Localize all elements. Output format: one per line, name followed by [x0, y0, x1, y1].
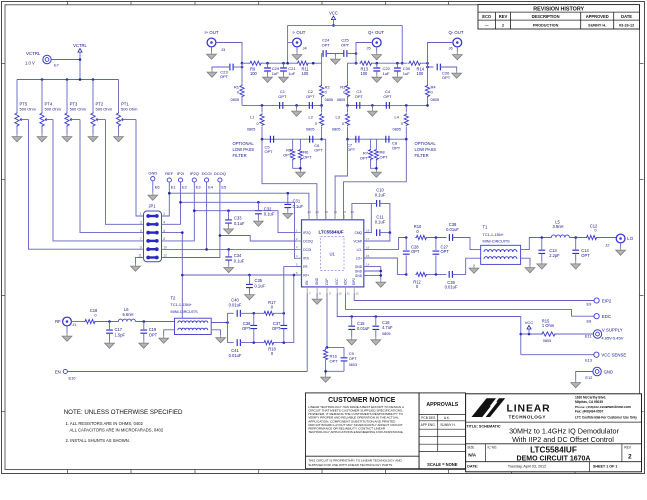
- svg-text:CAP: CAP: [325, 278, 329, 285]
- svg-text:OPT: OPT: [265, 149, 274, 154]
- capacitor C21 1uF: [280, 63, 296, 76]
- svg-text:03-26-12: 03-26-12: [619, 23, 634, 27]
- capacitor C11 0.1uF: [375, 214, 386, 236]
- wire I-LPF to chip pin23: [262, 139, 317, 220]
- svg-text:LTC5584IUF: LTC5584IUF: [530, 446, 577, 455]
- capacitor C27 OPT: [433, 238, 450, 275]
- inductor L6 5.6nH: [118, 307, 135, 322]
- capacitor C34 0.1uF: [225, 249, 244, 265]
- wire REF net E1 to chip pin24: [162, 182, 309, 220]
- svg-text:4.95V-5.45V: 4.95V-5.45V: [601, 335, 623, 340]
- terminal E2 IP2I: [177, 171, 187, 189]
- size and part number row: [467, 445, 632, 462]
- svg-text:OPT: OPT: [272, 326, 281, 331]
- svg-text:1uF: 1uF: [288, 71, 295, 76]
- wire VCC pin10 rail: [337, 293, 521, 318]
- optional low pass filter note I: [233, 141, 255, 158]
- svg-text:Q- OUT: Q- OUT: [448, 30, 463, 35]
- svg-text:19: 19: [351, 210, 355, 214]
- wire C11 to VCAP pin17: [364, 231, 391, 241]
- svg-text:3.9nH: 3.9nH: [553, 224, 564, 229]
- wire T2 secondary low to ground: [211, 330, 220, 335]
- svg-text:REF: REF: [165, 171, 174, 176]
- svg-text:2: 2: [502, 23, 504, 27]
- connector J4 I- OUT: [293, 30, 308, 51]
- title block frame: [466, 394, 642, 472]
- wire R5 R6 common: [293, 161, 302, 170]
- ground mid I-LPF: [292, 105, 302, 116]
- potentiometer PT4 500 Ohm: [40, 80, 62, 135]
- ground below C21: [279, 75, 289, 83]
- capacitor C15 0.01uF: [348, 317, 370, 338]
- capacitor C3 OPT: [355, 89, 364, 109]
- svg-text:SCALE = NONE: SCALE = NONE: [427, 462, 458, 467]
- svg-text:N/A: N/A: [468, 452, 477, 457]
- capacitor C41 0.01uF: [229, 339, 242, 358]
- svg-text:500 Ohm: 500 Ohm: [20, 107, 37, 112]
- wire R17 to RF- riser: [275, 312, 286, 315]
- connector JP1: [138, 204, 167, 262]
- ground at C23: [207, 70, 217, 78]
- svg-text:1: 1: [140, 212, 142, 216]
- svg-text:I+ OUT: I+ OUT: [205, 30, 219, 35]
- wire chip pin19 to C10 row: [352, 203, 372, 219]
- ground at chip right GND pins: [376, 280, 386, 288]
- capacitor C25 OPT: [341, 38, 357, 57]
- svg-text:I- OUT: I- OUT: [293, 30, 306, 35]
- svg-text:GND: GND: [355, 269, 363, 273]
- svg-text:LOW PASS: LOW PASS: [415, 147, 437, 152]
- svg-text:V SUPPLY: V SUPPLY: [602, 327, 623, 332]
- svg-text:0805: 0805: [247, 128, 255, 132]
- svg-text:0.1uF: 0.1uF: [234, 258, 245, 263]
- svg-text:VCC SENSE: VCC SENSE: [601, 353, 626, 358]
- svg-text:APPROVALS: APPROVALS: [426, 402, 458, 408]
- capacitor C6 OPT: [310, 136, 323, 153]
- resistor R17 0: [263, 300, 276, 315]
- wire R11 to C24 riser: [309, 62, 322, 65]
- ground below PT3: [62, 134, 72, 142]
- resistor R2 0 0805: [320, 63, 334, 105]
- power flag VCTRL: [73, 43, 87, 60]
- svg-text:0.01uF: 0.01uF: [446, 227, 459, 232]
- svg-text:FILTER: FILTER: [415, 153, 429, 158]
- svg-text:Q+ OUT: Q+ OUT: [368, 30, 384, 35]
- svg-text:C11: C11: [376, 214, 384, 219]
- svg-text:3: 3: [140, 221, 142, 225]
- capacitor C40 0.01uF: [229, 298, 242, 317]
- customer notice box: [306, 393, 420, 469]
- wire R13 to R14: [372, 62, 407, 65]
- svg-text:C17: C17: [115, 327, 123, 332]
- svg-text:J2: J2: [605, 242, 609, 247]
- svg-text:T1: T1: [483, 225, 489, 230]
- svg-text:OPTIONAL: OPTIONAL: [415, 141, 437, 146]
- svg-text:VCC: VCC: [335, 278, 339, 285]
- wire J1 to C18: [71, 321, 84, 323]
- connector J2 LO: [605, 234, 633, 247]
- wire RF+ row to T2 area: [181, 274, 294, 319]
- svg-text:OPT: OPT: [330, 358, 339, 363]
- approvals box: [419, 393, 466, 469]
- capacitor C37 OPT: [272, 313, 287, 342]
- ground below PT2: [88, 134, 98, 142]
- svg-text:0: 0: [257, 122, 259, 126]
- svg-text:L3: L3: [336, 115, 341, 120]
- ground below PT5: [12, 134, 22, 142]
- wire I-LPF top rail: [242, 104, 323, 107]
- wire JP1 pin11 to ground: [136, 258, 144, 264]
- svg-text:LINEAR: LINEAR: [507, 404, 551, 415]
- potentiometer PT2 500 Ohm: [91, 80, 113, 135]
- svg-text:ALL CAPACITORS ARE IN MICROFAR: ALL CAPACITORS ARE IN MICROFARADS, 0402: [70, 427, 164, 432]
- svg-text:0805: 0805: [431, 98, 439, 102]
- svg-text:APP ENG.: APP ENG.: [421, 423, 436, 427]
- svg-text:Phone: (408)432-1900: Phone: (408)432-1900: [575, 405, 607, 409]
- svg-text:L1: L1: [250, 115, 255, 120]
- resistor R13 100: [359, 61, 372, 76]
- resistor R4 0 0805: [425, 63, 439, 105]
- wire R18 to RF+ riser: [275, 341, 294, 344]
- ground below J1: [62, 326, 72, 342]
- resistor R8 OPT: [374, 139, 388, 160]
- ground below C29: [263, 75, 273, 83]
- ground at C26: [452, 71, 462, 79]
- terminal E3 IP2Q: [190, 171, 201, 189]
- svg-text:FILTER: FILTER: [233, 153, 247, 158]
- svg-text:0.01uF: 0.01uF: [229, 303, 242, 308]
- svg-text:OPTIONAL: OPTIONAL: [233, 141, 255, 146]
- capacitor C26 OPT: [426, 63, 457, 80]
- wire L5 to C12: [569, 236, 585, 239]
- resistor R14 100: [408, 61, 425, 76]
- wire T1 secondary to LO node: [521, 236, 552, 249]
- wire J3 to node A: [216, 43, 243, 69]
- address block: [575, 396, 637, 420]
- wire pot wiper to JP1 row 1: [136, 120, 144, 217]
- svg-text:E8: E8: [587, 318, 592, 323]
- svg-text:SUPPLIED FOR USE WITH LINEAR T: SUPPLIED FOR USE WITH LINEAR TECHNOLOGY …: [308, 463, 393, 467]
- svg-text:IP2I: IP2I: [303, 257, 309, 261]
- ground below J6: [452, 47, 462, 60]
- svg-text:LO: LO: [627, 236, 633, 241]
- ground below C22: [372, 75, 382, 83]
- wire R10 to C38: [427, 236, 446, 239]
- wire Q node rail: [348, 62, 359, 64]
- capacitor C22 1uF: [373, 63, 390, 76]
- wire T2 primary low to ground: [164, 330, 175, 336]
- ground below C16: [371, 337, 381, 345]
- ground below R7 R8: [372, 170, 382, 178]
- svg-text:SHEET 1 OF 1: SHEET 1 OF 1: [593, 465, 618, 469]
- svg-text:OPT: OPT: [581, 253, 590, 258]
- terminal E1 REF: [165, 171, 175, 189]
- wire C40 row: [228, 312, 234, 314]
- svg-text:OPT: OPT: [360, 156, 369, 161]
- svg-text:E10: E10: [69, 375, 77, 380]
- svg-text:PCB DES.: PCB DES.: [421, 416, 436, 420]
- ground below PT4: [37, 134, 47, 142]
- svg-text:OPT: OPT: [306, 94, 315, 99]
- svg-text:24: 24: [308, 210, 312, 214]
- wire T2 secondary to C40 C41 riser: [211, 313, 229, 342]
- revision history table: [478, 5, 640, 29]
- svg-text:10: 10: [338, 292, 342, 296]
- wire R15 to E11: [556, 333, 593, 335]
- capacitor C13 2.2pF: [538, 238, 560, 262]
- svg-text:Milpitas, CA 95035: Milpitas, CA 95035: [575, 400, 603, 404]
- svg-text:1uF: 1uF: [272, 71, 279, 76]
- wire R7 R8 common: [371, 161, 378, 170]
- wire DCOI net E4 to chip pin3: [162, 182, 302, 251]
- wire E7 to VCTRL node: [51, 59, 80, 61]
- svg-text:EN: EN: [305, 280, 309, 285]
- svg-text:JP1: JP1: [148, 204, 156, 209]
- ground below R16 C9: [321, 375, 331, 383]
- resistor R1 0 0805: [231, 63, 245, 105]
- svg-text:With IIP2 and DC Offset Contro: With IIP2 and DC Offset Control: [512, 435, 614, 444]
- svg-text:E6: E6: [155, 185, 160, 190]
- svg-text:1uF: 1uF: [403, 71, 410, 76]
- resistor R7 OPT: [360, 139, 373, 160]
- svg-text:0805: 0805: [325, 98, 333, 102]
- svg-text:DATE:: DATE:: [467, 465, 478, 469]
- wire VCC rail down to I- node: [287, 25, 289, 63]
- svg-text:T2: T2: [171, 296, 177, 301]
- wire I-LPF C6 to chip pin22: [322, 139, 326, 220]
- wire C18 to L6: [96, 320, 118, 323]
- svg-text:OPT: OPT: [303, 155, 312, 160]
- svg-text:5.6nH: 5.6nH: [123, 312, 134, 317]
- wire DCOQ net E5 to chip pin2: [162, 182, 302, 257]
- svg-text:IP2Q: IP2Q: [303, 231, 311, 235]
- capacitor C39 0.01uF: [445, 271, 458, 290]
- wire J5 riser: [355, 43, 373, 65]
- svg-text:OPT: OPT: [349, 356, 358, 361]
- svg-text:OPT: OPT: [242, 326, 251, 331]
- capacitor C28 OPT: [403, 238, 420, 275]
- capacitor C35 0.1uF: [246, 275, 265, 292]
- svg-text:1uF: 1uF: [383, 71, 390, 76]
- svg-text:DESCRIPTION: DESCRIPTION: [532, 14, 560, 19]
- svg-text:OPT: OPT: [314, 148, 323, 153]
- svg-text:EDC: EDC: [602, 314, 611, 319]
- ground below J4: [292, 47, 302, 60]
- wire VCC SENSE: [521, 354, 594, 356]
- svg-text:IP2I: IP2I: [177, 171, 184, 176]
- resistor R18 0: [263, 341, 276, 357]
- svg-text:MINI-CIRCUITS: MINI-CIRCUITS: [171, 310, 199, 314]
- wire JP1 pin6 to RF node: [162, 231, 184, 275]
- svg-text:RF+: RF+: [303, 273, 309, 277]
- svg-text:100: 100: [250, 71, 258, 76]
- capacitor C10 0.1uF: [372, 187, 386, 207]
- svg-text:0.1uF: 0.1uF: [255, 283, 266, 288]
- svg-text:1.5pF: 1.5pF: [115, 332, 126, 337]
- svg-text:TECHNOLOGY: TECHNOLOGY: [509, 414, 546, 419]
- ground below J5: [372, 47, 382, 60]
- wire VCC to supply node: [520, 317, 523, 355]
- capacitor C31 0.1uF: [284, 193, 303, 211]
- capacitor C5 OPT: [265, 136, 274, 154]
- svg-text:CUSTOMER NOTICE: CUSTOMER NOTICE: [328, 397, 396, 404]
- svg-text:OPT: OPT: [347, 147, 356, 152]
- wire LO+ pin15 to R12 rail: [364, 258, 408, 276]
- ground T1 right: [525, 265, 535, 273]
- svg-text:VCTRL: VCTRL: [73, 43, 87, 48]
- ground below C13: [537, 261, 547, 269]
- terminal E5 DCOQ: [214, 171, 226, 189]
- svg-text:0805: 0805: [306, 128, 314, 132]
- resistor R11 100: [297, 61, 310, 76]
- svg-text:0805: 0805: [332, 128, 340, 132]
- wire E12 to ground: [576, 372, 595, 381]
- terminal E4 DCOI: [202, 171, 214, 189]
- svg-text:VCAP: VCAP: [353, 239, 362, 243]
- svg-text:IP2Q: IP2Q: [190, 171, 199, 176]
- svg-text:OPT: OPT: [149, 332, 158, 337]
- svg-text:0.1uF: 0.1uF: [375, 220, 386, 225]
- capacitor C24 OPT: [322, 38, 331, 57]
- terminal E11 V SUPPLY: [585, 327, 624, 340]
- capacitor C30 1uF: [394, 63, 411, 76]
- svg-text:DATE: DATE: [621, 14, 632, 19]
- resistor R15 1 Ohm: [541, 318, 556, 343]
- svg-text:Fax: (408)434-0507: Fax: (408)434-0507: [575, 409, 604, 413]
- wire pot wiper to JP1 row 4: [53, 120, 144, 241]
- svg-text:OPT: OPT: [283, 153, 292, 158]
- wire Q-LPF to chip pin21: [335, 139, 347, 220]
- svg-text:LTC5584IUF: LTC5584IUF: [318, 230, 343, 235]
- svg-text:22: 22: [325, 210, 329, 214]
- capacitor C2 OPT: [306, 89, 315, 109]
- wire node B: [262, 62, 297, 65]
- svg-text:J6: J6: [449, 46, 453, 51]
- wire C10 left leg: [370, 203, 372, 232]
- svg-text:14: 14: [366, 263, 370, 267]
- svg-text:NOTE: UNLESS OTHERWISE SPECIFI: NOTE: UNLESS OTHERWISE SPECIFIED: [64, 409, 183, 416]
- svg-text:EIP2: EIP2: [602, 298, 612, 303]
- svg-text:C10: C10: [376, 187, 384, 192]
- ground T2 left: [159, 336, 169, 344]
- capacitor C1 OPT: [278, 89, 287, 109]
- wire C40 to R17: [240, 312, 263, 315]
- wire RF- riser to chip pin5: [284, 267, 302, 314]
- wire C41 to R18: [240, 341, 263, 344]
- wire C24 to C25: [326, 53, 344, 55]
- ground below C35: [245, 292, 255, 300]
- resistor R3 0 0805: [337, 63, 350, 105]
- svg-text:500 Ohm: 500 Ohm: [70, 107, 87, 112]
- svg-text:100: 100: [302, 71, 310, 76]
- potentiometer PT3 500 Ohm: [65, 80, 87, 135]
- capacitor C36 OPT: [242, 313, 257, 342]
- ground below U1 GND pin8: [312, 293, 322, 304]
- title text: [466, 425, 619, 444]
- svg-text:0: 0: [315, 122, 317, 126]
- svg-text:OPT: OPT: [220, 74, 229, 79]
- svg-text:0.1uF: 0.1uF: [264, 212, 275, 217]
- wire pot wiper to JP1 row 5: [29, 120, 144, 250]
- svg-text:SUNNY H.: SUNNY H.: [588, 23, 606, 27]
- svg-text:0.01uF: 0.01uF: [357, 326, 370, 331]
- svg-text:GND: GND: [355, 265, 363, 269]
- svg-text:11: 11: [347, 292, 350, 296]
- svg-text:IC NO.: IC NO.: [488, 445, 498, 449]
- svg-text:1.0 V: 1.0 V: [25, 61, 35, 66]
- svg-text:REV: REV: [499, 14, 508, 19]
- capacitor C14 OPT: [572, 238, 590, 262]
- date row: [467, 465, 617, 469]
- wire R12 to C39: [427, 273, 446, 276]
- svg-text:18: 18: [366, 229, 370, 233]
- ground below C14: [571, 261, 581, 269]
- svg-text:0805: 0805: [231, 98, 239, 102]
- svg-text:GND: GND: [355, 274, 363, 278]
- svg-text:0805: 0805: [337, 98, 345, 102]
- svg-text:APPROVED: APPROVED: [586, 14, 609, 19]
- transformer T1 TC1-1-13M+: [481, 225, 521, 265]
- svg-text:2.2pF: 2.2pF: [549, 253, 560, 258]
- svg-text:7: 7: [140, 237, 142, 241]
- resistor R16 OPT: [324, 349, 339, 375]
- connector J1 RF: [55, 317, 76, 327]
- svg-text:C33: C33: [234, 216, 242, 221]
- wire chip GND pins common: [364, 267, 382, 280]
- svg-text:REV.: REV.: [624, 445, 631, 449]
- wire EN pin7 to EN line: [306, 293, 308, 372]
- capacitor C9 OPT 0603: [324, 347, 357, 372]
- wire J4 tap: [288, 42, 293, 44]
- ground below C31: [283, 211, 293, 219]
- wire CMQ pin18 to C11: [364, 232, 372, 234]
- svg-text:E11: E11: [585, 333, 592, 338]
- terminal E10 EN: [55, 369, 76, 380]
- wire Q-LPF top rail: [346, 104, 429, 107]
- resistor R6 OPT: [298, 139, 312, 160]
- svg-text:VCC: VCC: [329, 11, 338, 16]
- op-amp U1 LTC5584IUF demodulator IC: [296, 210, 370, 295]
- svg-text:VCTRL: VCTRL: [26, 51, 41, 56]
- svg-text:DCOQ: DCOQ: [303, 239, 313, 243]
- note text: [64, 409, 183, 443]
- svg-text:EN: EN: [55, 369, 61, 374]
- svg-text:2: 2: [628, 453, 632, 460]
- svg-text:L4: L4: [395, 115, 400, 120]
- svg-text:J3: J3: [221, 47, 225, 52]
- svg-text:0.1uF: 0.1uF: [234, 221, 245, 226]
- svg-text:ECO: ECO: [482, 14, 492, 19]
- svg-text:VCC: VCC: [525, 320, 534, 325]
- wire IP2I net E2 to chip pin4: [162, 182, 302, 258]
- wire J6 to node: [428, 43, 454, 64]
- svg-text:OPT: OPT: [411, 249, 420, 254]
- svg-text:SIZE: SIZE: [467, 445, 474, 449]
- svg-text:E5: E5: [221, 185, 226, 190]
- ground below C30: [393, 75, 403, 83]
- svg-text:OPT: OPT: [441, 249, 450, 254]
- ground below C15: [347, 337, 357, 345]
- svg-text:5: 5: [140, 229, 142, 233]
- ground mid Q-LPF: [368, 105, 378, 116]
- svg-text:23: 23: [316, 210, 320, 214]
- capacitor C16 4.7uF 0805: [372, 317, 393, 338]
- capacitor C7 OPT: [347, 136, 359, 152]
- svg-text:OPT: OPT: [322, 42, 331, 47]
- ground below JP1: [131, 264, 141, 272]
- svg-text:LO+: LO+: [356, 256, 362, 260]
- wire I-LPF bottom rail: [261, 138, 323, 141]
